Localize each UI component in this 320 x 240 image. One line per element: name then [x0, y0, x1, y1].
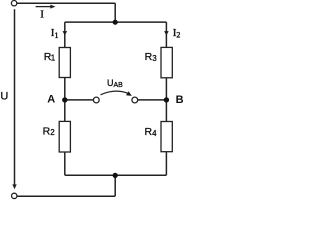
wire R2 to bottom rail	[64, 152, 66, 175]
resistor R4	[161, 122, 172, 152]
wire bottom rail	[65, 174, 167, 176]
voltage arrow U	[14, 9, 16, 185]
resistor R2	[59, 121, 70, 152]
voltage arrow UAB (curved)	[101, 91, 130, 95]
terminal bottom-left	[12, 193, 17, 198]
wire node A to R2	[64, 100, 66, 122]
wire bottom drop	[114, 175, 116, 196]
wire node B to R4	[165, 100, 167, 122]
svg-text:U: U	[0, 90, 8, 102]
wire bottom horizontal to - terminal	[17, 195, 115, 197]
current arrow I	[36, 6, 52, 8]
svg-text:I1: I1	[51, 27, 59, 40]
svg-text:UAB: UAB	[107, 78, 123, 89]
switch terminal right (open circle)	[132, 97, 138, 103]
current arrowhead I1	[63, 31, 68, 35]
node B junction dot	[164, 97, 169, 102]
svg-text:B: B	[176, 94, 183, 106]
wire top horizontal from + terminal	[17, 2, 115, 4]
wire R4 to bottom rail	[165, 152, 167, 176]
svg-text:R4: R4	[145, 126, 158, 138]
node A junction dot	[62, 97, 67, 102]
svg-text:R1: R1	[44, 51, 56, 63]
terminal top-left	[11, 1, 16, 6]
wire R1 to node A	[64, 78, 66, 100]
svg-text:I2: I2	[173, 27, 181, 40]
wire node A to switch terminal	[65, 99, 94, 101]
wire top rail	[65, 21, 167, 23]
wire R3 to node B	[165, 78, 167, 100]
resistor R1	[59, 48, 70, 78]
svg-text:I: I	[40, 8, 44, 20]
junction dot bottom	[113, 173, 118, 178]
wire switch terminal to node B	[138, 99, 167, 101]
svg-text:A: A	[47, 94, 55, 106]
resistor R3	[161, 47, 172, 77]
wire left branch upper (to R1)	[64, 22, 66, 47]
svg-text:R2: R2	[43, 125, 56, 137]
wire top drop	[114, 3, 116, 22]
wire right branch upper (to R3)	[165, 22, 167, 47]
junction dot top	[113, 20, 118, 25]
svg-text:R3: R3	[145, 51, 158, 63]
switch terminal left (open circle)	[93, 97, 99, 103]
current arrowhead I2	[164, 31, 169, 35]
